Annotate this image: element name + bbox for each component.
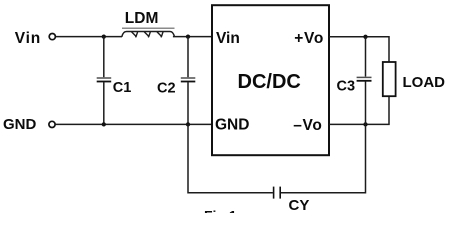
svg-text:C3: C3 — [337, 79, 356, 95]
wire inductor to C2 junction to DC/DC Vin pin — [173, 36, 212, 38]
svg-text:C1: C1 — [113, 80, 132, 96]
inductor LDM loop notches — [132, 32, 164, 38]
capacitor C3 plates — [357, 76, 372, 78]
svg-text:C2: C2 — [157, 81, 176, 97]
capacitor C3 bottom lead — [365, 82, 367, 125]
svg-text:+Vo: +Vo — [294, 30, 324, 47]
wire Vin to C1 junction to inductor — [56, 36, 122, 38]
junction dot Vin/C2 — [186, 34, 190, 38]
svg-text:Vin: Vin — [216, 30, 240, 47]
svg-text:LOAD: LOAD — [403, 74, 446, 91]
svg-text:–Vo: –Vo — [293, 117, 322, 134]
svg-text:Fig 1: Fig 1 — [204, 208, 237, 214]
junction dot -Vo/C3/CY — [363, 122, 367, 126]
resistor LOAD body — [383, 62, 396, 96]
capacitor C1 plates — [97, 77, 112, 79]
svg-text:GND: GND — [3, 116, 37, 133]
svg-text:DC/DC: DC/DC — [238, 71, 301, 93]
capacitor C1 top lead — [103, 37, 105, 78]
wire -Vo to C3 junction to LOAD — [329, 96, 389, 124]
capacitor C1 bottom lead — [103, 82, 105, 124]
junction dot GND/C2/CY — [186, 122, 190, 126]
inductor LDM core bar — [122, 27, 175, 29]
wire GND to DC/DC GND pin — [56, 123, 213, 125]
capacitor CY plates — [273, 187, 275, 199]
converter U1 DC/DC box — [212, 5, 329, 155]
terminal Vin — [49, 34, 55, 40]
svg-text:CY: CY — [289, 197, 310, 213]
capacitor C2 plates — [181, 77, 196, 79]
svg-text:Vin: Vin — [15, 30, 41, 47]
wire CY right vertical to -Vo junction — [281, 124, 366, 192]
wire CY left vertical from GND junction — [188, 124, 273, 192]
junction dot +Vo/C3 — [363, 35, 367, 39]
capacitor C3 top lead — [365, 37, 367, 77]
inductor LDM coil — [122, 32, 175, 37]
svg-text:LDM: LDM — [125, 10, 159, 27]
capacitor C2 bottom lead — [187, 82, 189, 124]
capacitor C2 top lead — [187, 37, 189, 78]
junction dot Vin/C1 — [102, 34, 106, 38]
junction dot GND/C1 — [102, 122, 106, 126]
wire +Vo to C3 junction to LOAD — [329, 37, 389, 62]
svg-text:GND: GND — [215, 117, 249, 134]
terminal GND — [49, 121, 55, 127]
